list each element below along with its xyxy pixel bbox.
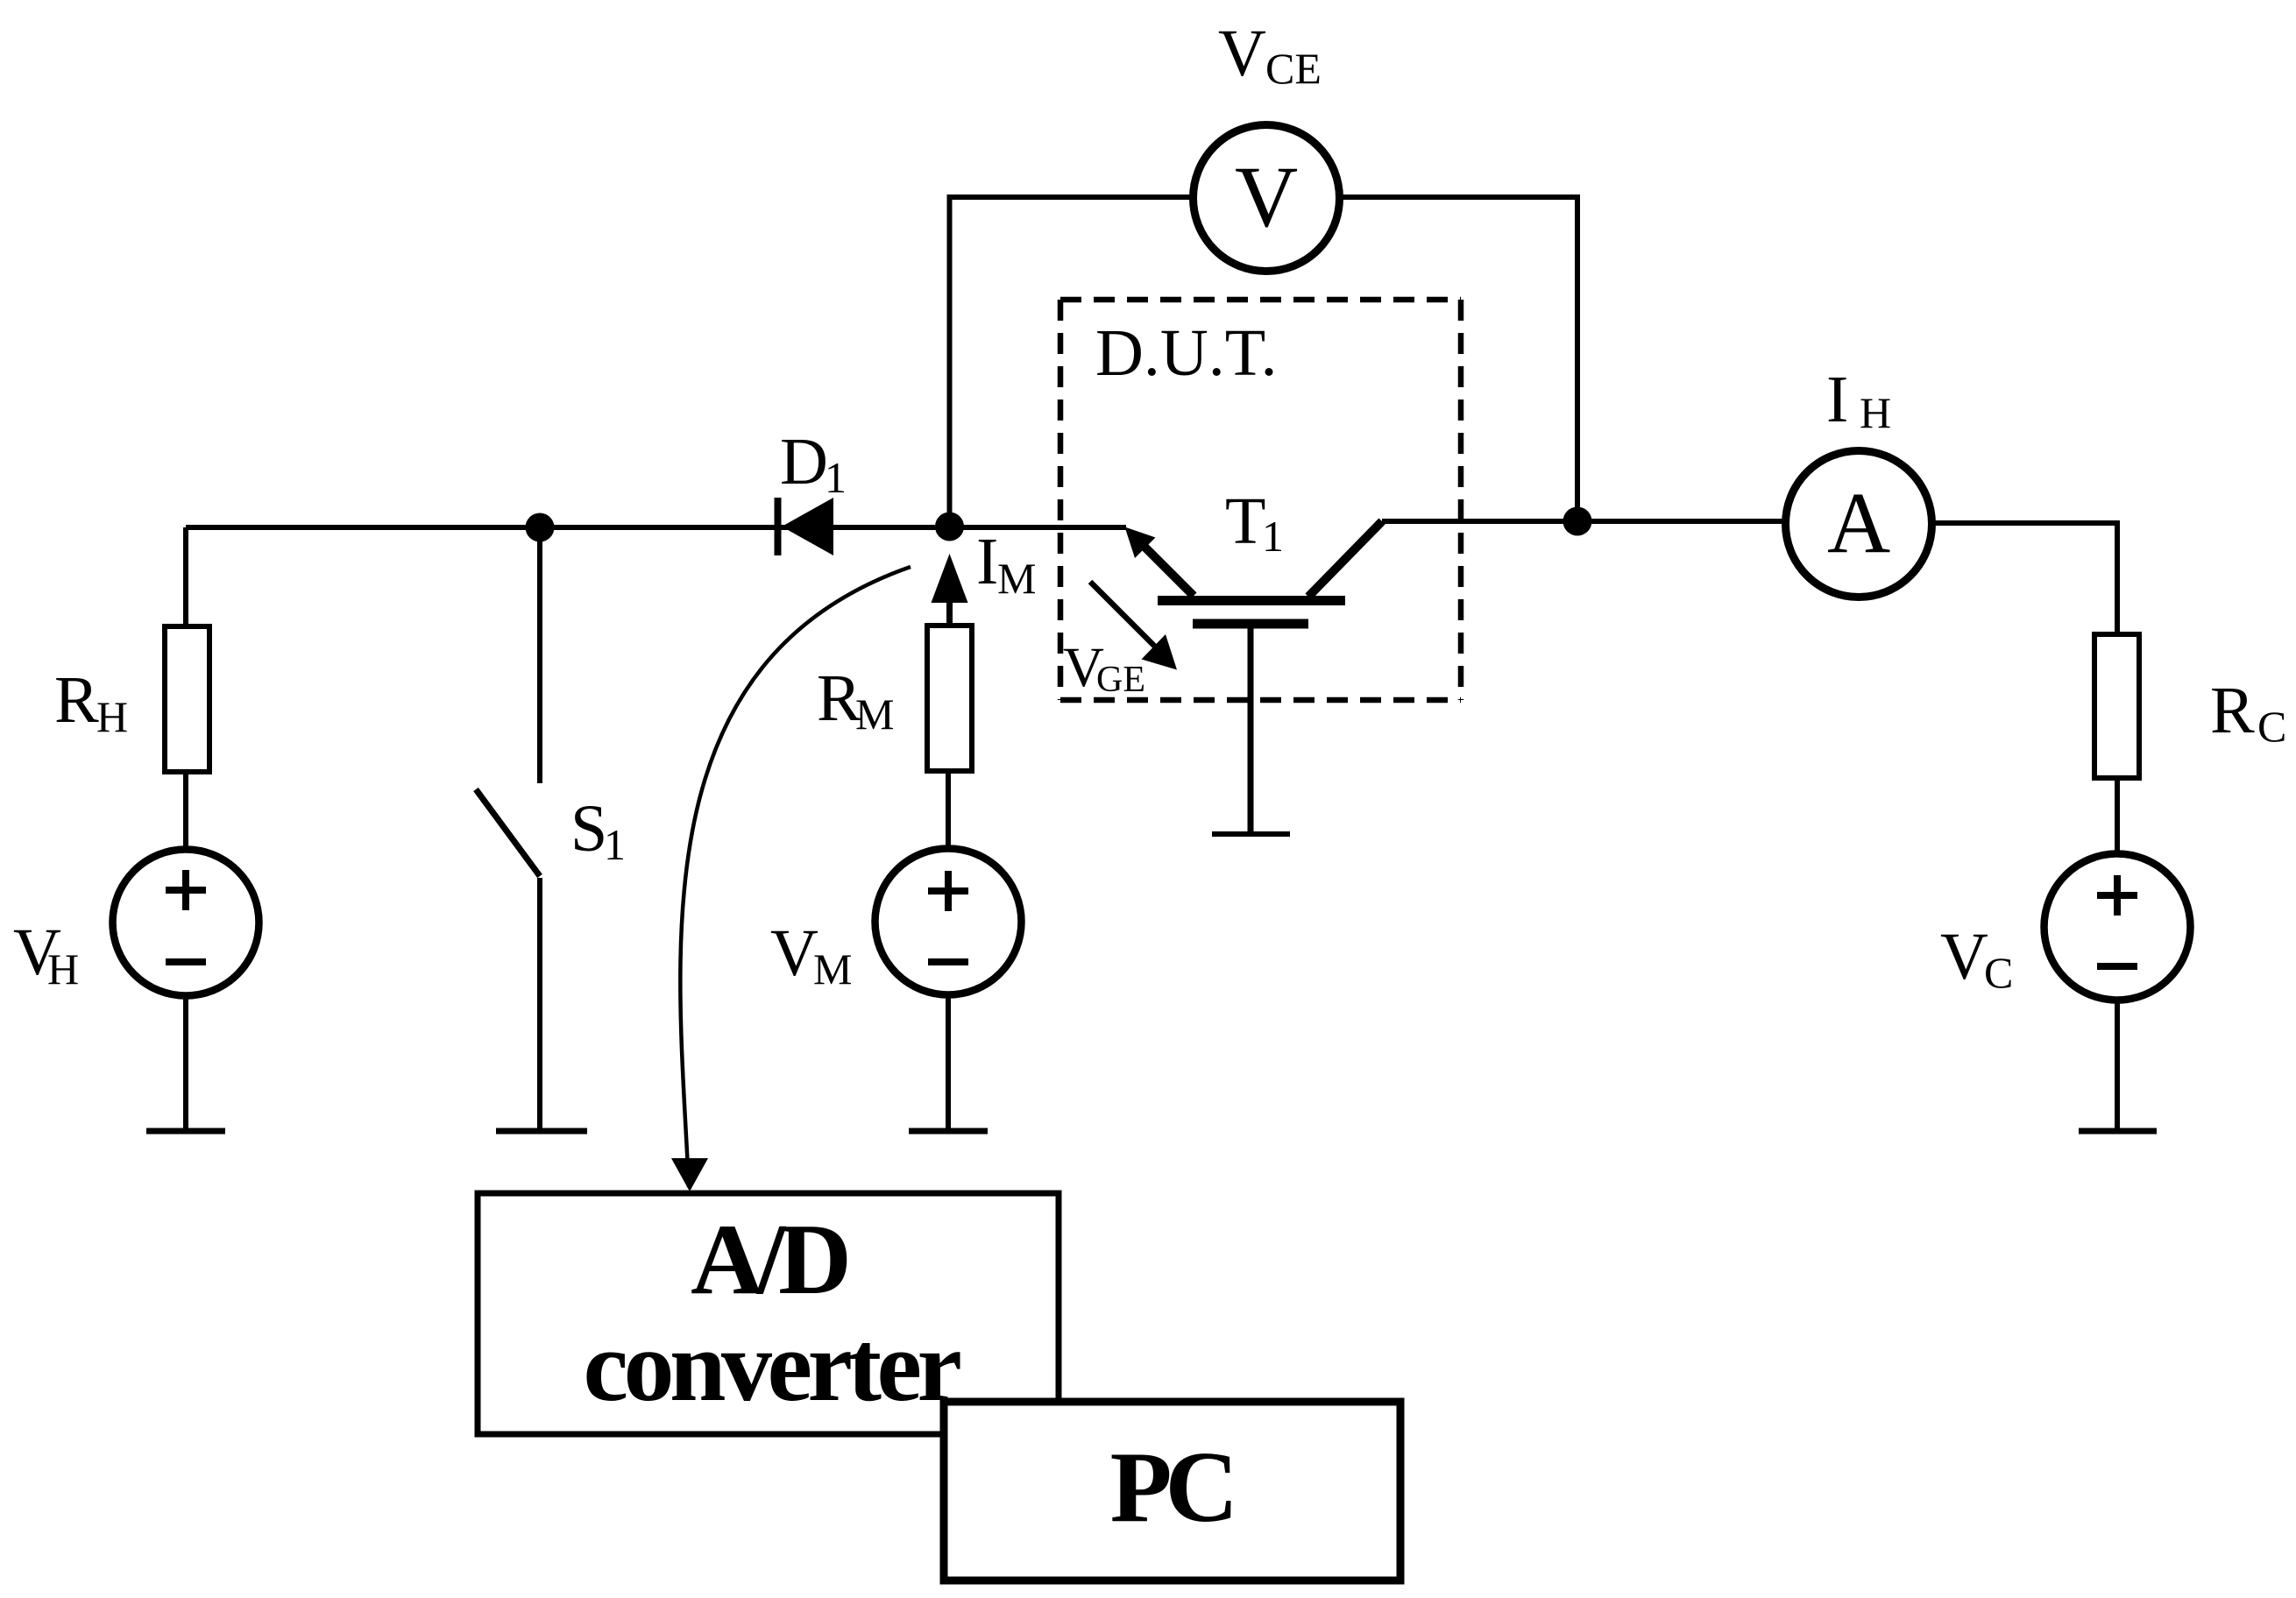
svg-text:I: I [1826, 363, 1848, 436]
svg-text:V: V [1940, 920, 1988, 993]
svg-text:V: V [1218, 17, 1266, 90]
svg-text:A: A [1827, 474, 1890, 571]
svg-text:R: R [2210, 674, 2255, 747]
svg-text:V: V [1235, 148, 1298, 245]
svg-text:GE: GE [1096, 660, 1145, 700]
svg-text:H: H [47, 944, 79, 993]
svg-text:R: R [54, 663, 99, 737]
svg-text:C: C [2257, 702, 2286, 751]
svg-text:1: 1 [1262, 512, 1284, 561]
svg-text:M: M [997, 554, 1036, 603]
svg-text:PC: PC [1110, 1432, 1232, 1544]
svg-text:H: H [96, 692, 128, 741]
svg-text:M: M [855, 689, 894, 739]
svg-text:H: H [1860, 388, 1891, 437]
svg-text:C: C [1984, 948, 2013, 997]
svg-text:D: D [780, 425, 828, 498]
svg-text:S: S [570, 792, 607, 866]
svg-text:converter: converter [583, 1311, 960, 1423]
svg-text:D.U.T.: D.U.T. [1095, 316, 1278, 390]
svg-text:A/D: A/D [691, 1204, 847, 1316]
svg-text:V: V [770, 916, 818, 990]
svg-text:T: T [1225, 484, 1265, 558]
svg-text:M: M [813, 944, 852, 993]
svg-text:1: 1 [825, 453, 847, 502]
svg-text:CE: CE [1265, 44, 1322, 93]
svg-text:1: 1 [604, 820, 626, 869]
svg-text:I: I [976, 525, 998, 598]
